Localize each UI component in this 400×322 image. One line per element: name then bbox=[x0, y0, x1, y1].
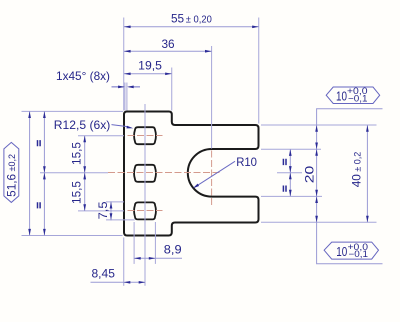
svg-text:10: 10 bbox=[336, 244, 347, 259]
svg-text:10: 10 bbox=[336, 88, 347, 103]
centerline slot 1 bbox=[128, 135, 163, 137]
boxed label 51,6 bbox=[4, 142, 19, 202]
dimension 20 and gaps line with callout leaders bbox=[317, 109, 383, 264]
slot 3 bbox=[134, 202, 156, 219]
svg-text:−0,1: −0,1 bbox=[349, 249, 369, 259]
dimension 8,9 line bbox=[134, 257, 182, 259]
extension line part left bottom bbox=[123, 238, 125, 286]
equals dim line left bbox=[43, 111, 45, 235]
slot 2 bbox=[134, 165, 156, 182]
part outline bbox=[124, 112, 259, 236]
dimension 7,5 line bbox=[110, 201, 112, 220]
svg-text:15,5: 15,5 bbox=[70, 181, 84, 204]
extension line slot3 bottom bbox=[106, 219, 135, 221]
leader R12,5 bbox=[112, 125, 128, 127]
extension line arc center bbox=[211, 46, 213, 149]
svg-text:8,45: 8,45 bbox=[92, 266, 116, 280]
extension line top edge left bbox=[22, 110, 124, 112]
slot 1 bbox=[134, 127, 156, 144]
equals dim line right bbox=[289, 149, 291, 196]
extension line prong top right bbox=[261, 124, 377, 126]
svg-text:15,5: 15,5 bbox=[70, 142, 84, 165]
boxed callout 10 top bbox=[326, 87, 380, 104]
svg-text:20: 20 bbox=[303, 165, 317, 183]
extension line prong end bbox=[258, 18, 260, 124]
svg-text:−0,1: −0,1 bbox=[348, 93, 368, 103]
extension line slot right bottom bbox=[154, 222, 156, 264]
dimension 15,5 upper line bbox=[84, 136, 86, 211]
leader R10 bbox=[196, 161, 236, 186]
svg-text:19,5: 19,5 bbox=[138, 58, 162, 72]
equals mark left lower bbox=[38, 202, 41, 208]
svg-text:40 ± 0,2: 40 ± 0,2 bbox=[350, 152, 364, 188]
centerline slot 3 bbox=[128, 210, 163, 212]
dimension 19,5 line bbox=[124, 73, 172, 75]
extension line slot1 center bbox=[78, 135, 124, 137]
dimension 8,45 line bbox=[91, 281, 146, 283]
extension line fork bottom right bbox=[261, 195, 322, 197]
svg-text:1x45° (8x): 1x45° (8x) bbox=[56, 69, 110, 83]
leader 1x45 bbox=[112, 86, 141, 88]
dimension 36 line bbox=[124, 50, 212, 52]
extension line bottom edge left bbox=[22, 235, 123, 237]
extension line slot3 center bbox=[78, 210, 124, 212]
extension line part center left bbox=[40, 172, 108, 174]
svg-text:R12,5 (6x): R12,5 (6x) bbox=[54, 118, 111, 132]
dimension 55 line bbox=[124, 26, 259, 28]
svg-text:± 0,20: ± 0,20 bbox=[186, 14, 212, 25]
chamfer extension lines bbox=[125, 83, 127, 111]
svg-text:8,9: 8,9 bbox=[164, 242, 182, 256]
extension line step bbox=[171, 68, 173, 111]
equals mark right upper bbox=[283, 159, 286, 165]
boxed callout 10 bottom bbox=[324, 242, 378, 259]
centerline arc vertical bbox=[211, 151, 213, 207]
svg-text:R10: R10 bbox=[236, 155, 257, 169]
equals mark left upper bbox=[38, 140, 41, 146]
slot vertical centerline bbox=[144, 104, 146, 286]
extension line center right bbox=[277, 172, 302, 174]
extension line slot left bottom bbox=[133, 222, 135, 264]
dimension 51,6 line bbox=[29, 111, 31, 235]
svg-text:36: 36 bbox=[162, 37, 176, 51]
dimension 40 line bbox=[366, 125, 368, 222]
extension line fork top right bbox=[261, 148, 321, 150]
svg-text:55: 55 bbox=[171, 12, 185, 26]
svg-text:51,6 ±0,2: 51,6 ±0,2 bbox=[5, 154, 19, 197]
extension line part left top bbox=[123, 18, 125, 111]
centerline main horizontal bbox=[108, 172, 222, 174]
extension line slot3 top bbox=[106, 201, 124, 203]
svg-text:7,5: 7,5 bbox=[96, 201, 110, 219]
extension line prong bottom right bbox=[261, 221, 377, 223]
equals mark right lower bbox=[283, 186, 286, 192]
